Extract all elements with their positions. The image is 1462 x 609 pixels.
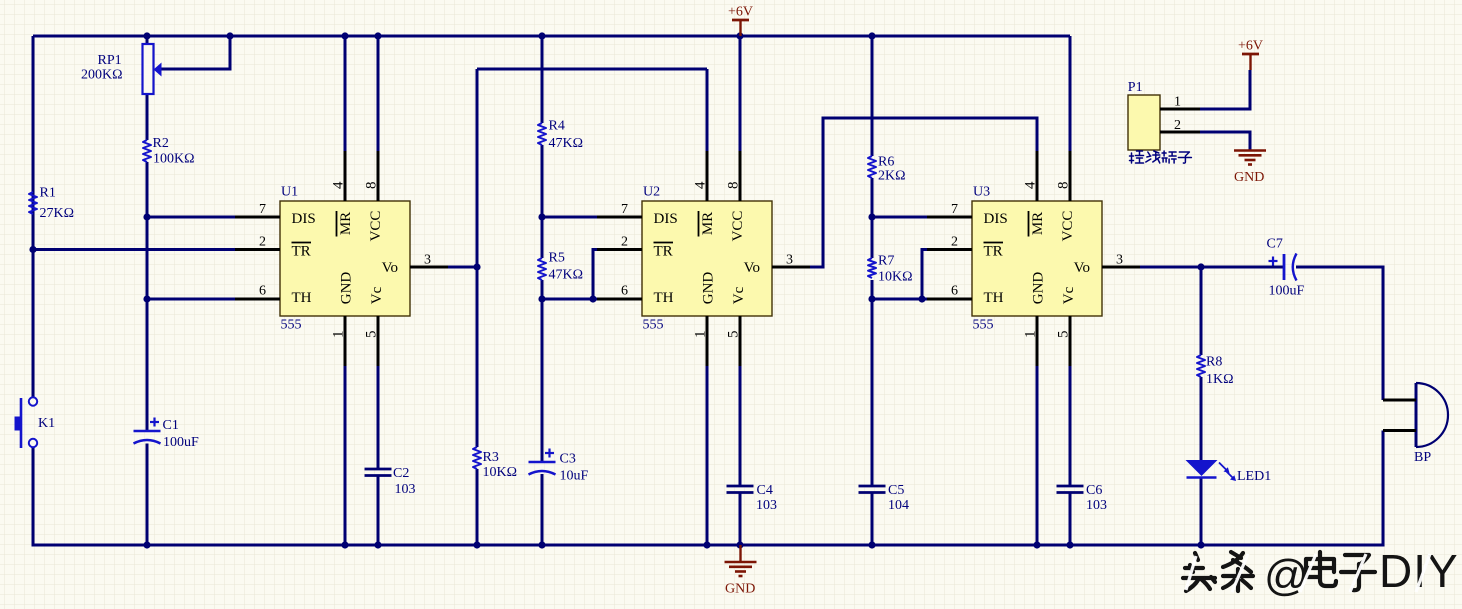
svg-text:10uF: 10uF [560,469,589,484]
svg-text:Vc: Vc [1061,286,1077,304]
svg-text:7: 7 [259,202,266,217]
svg-text:U2: U2 [643,185,660,200]
svg-text:27KΩ: 27KΩ [40,206,75,221]
svg-text:C5: C5 [888,483,904,498]
svg-text:R8: R8 [1206,355,1222,370]
svg-text:R7: R7 [878,254,894,269]
svg-text:100uF: 100uF [163,435,199,450]
svg-text:U3: U3 [973,185,990,200]
svg-text:100uF: 100uF [1269,284,1305,299]
svg-text:6: 6 [259,284,266,299]
svg-text:VCC: VCC [730,211,746,242]
svg-text:103: 103 [1086,498,1107,513]
svg-text:MR: MR [700,212,716,235]
svg-text:10KΩ: 10KΩ [483,465,518,480]
svg-text:MR: MR [1030,212,1046,235]
svg-text:6: 6 [621,284,628,299]
svg-text:Vo: Vo [744,260,760,276]
svg-text:C3: C3 [560,452,576,467]
svg-text:C4: C4 [757,483,773,498]
svg-text:MR: MR [338,212,354,235]
svg-text:3: 3 [1116,253,1123,268]
svg-text:DIY: DIY [1379,545,1459,597]
svg-text:VCC: VCC [1060,211,1076,242]
svg-text:R5: R5 [549,251,565,266]
svg-text:47KΩ: 47KΩ [549,268,584,283]
svg-text:2: 2 [259,235,266,250]
svg-text:GND: GND [1234,170,1264,185]
svg-text:GND: GND [725,582,755,597]
svg-text:10KΩ: 10KΩ [878,270,913,285]
svg-text:DIS: DIS [292,211,316,227]
svg-text:Vo: Vo [1074,260,1090,276]
svg-text:103: 103 [756,498,777,513]
svg-text:555: 555 [281,318,302,333]
svg-text:Vc: Vc [731,286,747,304]
svg-text:DIS: DIS [984,211,1008,227]
svg-text:C1: C1 [163,418,179,433]
svg-text:R1: R1 [40,186,56,201]
svg-text:TR: TR [292,244,311,260]
svg-text:C2: C2 [393,466,409,481]
svg-text:200KΩ: 200KΩ [81,68,123,83]
svg-text:2: 2 [1174,118,1181,133]
svg-text:100KΩ: 100KΩ [153,152,195,167]
svg-text:TH: TH [984,290,1004,306]
svg-text:104: 104 [888,498,909,513]
svg-text:GND: GND [339,272,355,305]
svg-text:TH: TH [654,290,674,306]
svg-text:1: 1 [1174,95,1181,110]
svg-text:R3: R3 [483,450,499,465]
svg-text:U1: U1 [281,185,298,200]
svg-text:@: @ [1264,551,1309,600]
svg-text:TR: TR [654,244,673,260]
svg-text:P1: P1 [1128,80,1143,95]
svg-text:+6V: +6V [728,5,753,20]
svg-text:6: 6 [951,284,958,299]
svg-text:2KΩ: 2KΩ [878,169,906,184]
svg-text:GND: GND [701,272,717,305]
svg-text:555: 555 [973,318,994,333]
svg-text:Vo: Vo [382,260,398,276]
svg-text:R2: R2 [153,136,169,151]
svg-text:103: 103 [395,482,416,497]
svg-text:VCC: VCC [368,211,384,242]
svg-text:Vc: Vc [369,286,385,304]
svg-text:GND: GND [1031,272,1047,305]
svg-text:+6V: +6V [1238,39,1263,54]
svg-text:C7: C7 [1267,237,1283,252]
svg-text:7: 7 [621,202,628,217]
svg-text:R6: R6 [878,155,894,170]
svg-text:R4: R4 [549,119,565,134]
svg-text:7: 7 [951,202,958,217]
svg-text:3: 3 [424,253,431,268]
svg-text:RP1: RP1 [98,53,122,68]
svg-text:BP: BP [1414,450,1431,465]
svg-text:3: 3 [786,253,793,268]
svg-text:DIS: DIS [654,211,678,227]
svg-text:TH: TH [292,290,312,306]
svg-text:K1: K1 [38,416,55,431]
svg-text:LED1: LED1 [1237,469,1271,484]
svg-text:47KΩ: 47KΩ [549,136,584,151]
svg-text:TR: TR [984,244,1003,260]
svg-text:2: 2 [621,235,628,250]
svg-text:C6: C6 [1086,483,1102,498]
svg-text:1KΩ: 1KΩ [1206,372,1234,387]
svg-text:2: 2 [951,235,958,250]
svg-text:555: 555 [643,318,664,333]
